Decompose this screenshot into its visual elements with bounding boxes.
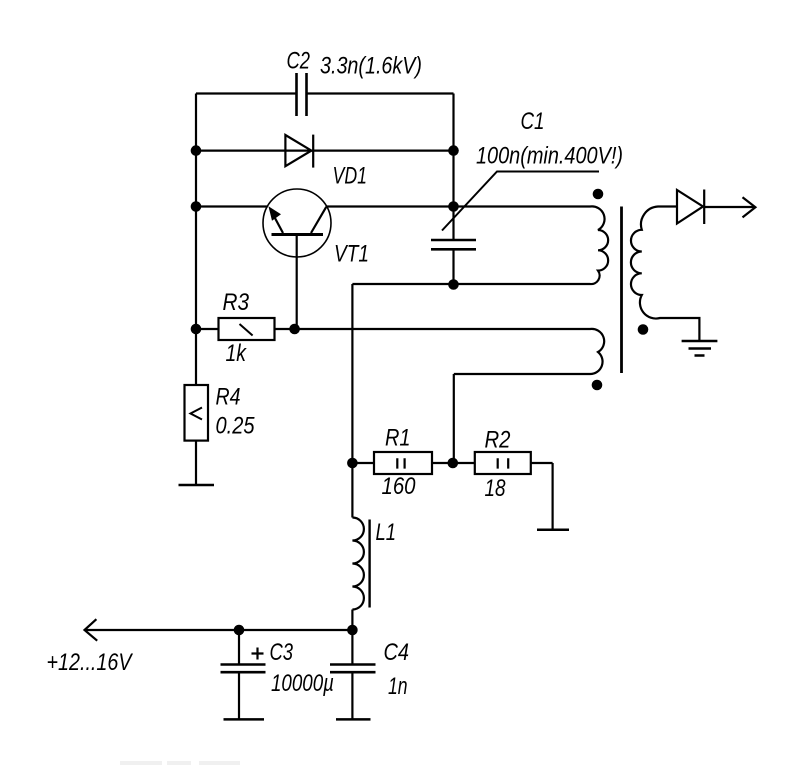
svg-text:C1: C1 bbox=[521, 108, 545, 135]
junction dots right rail bbox=[448, 145, 459, 290]
junction dots left rail bbox=[191, 145, 202, 334]
transformer secondary winding bbox=[631, 207, 700, 341]
wire VD1 row bbox=[196, 150, 454, 152]
svg-text:10000µ: 10000µ bbox=[271, 670, 334, 697]
svg-text:C4: C4 bbox=[384, 639, 410, 666]
svg-text:160: 160 bbox=[382, 473, 417, 500]
plus sign C3 bbox=[252, 648, 264, 660]
phasing dot winding 2 bbox=[592, 380, 603, 391]
svg-text:VD1: VD1 bbox=[333, 163, 368, 190]
inductor L1 bbox=[352, 518, 369, 610]
wire left rail bbox=[195, 94, 197, 386]
phasing dot winding 1 bbox=[593, 189, 604, 200]
wire R2 to ground bbox=[551, 463, 553, 530]
junction dots R1 row bbox=[347, 458, 458, 469]
wire R3 row to transformer primary winding 2 bbox=[295, 329, 605, 374]
transistor VT1 bbox=[263, 189, 331, 329]
svg-text:R1: R1 bbox=[385, 425, 411, 452]
wire L1 to supply row bbox=[351, 610, 353, 631]
wire winding2 to R1R2 junction bbox=[453, 374, 455, 463]
svg-text:100n(min.400V!): 100n(min.400V!) bbox=[476, 143, 623, 170]
wire right rail bbox=[452, 94, 454, 285]
wire output with arrow bbox=[705, 197, 756, 217]
svg-text:1k: 1k bbox=[226, 340, 248, 367]
svg-text:3.3n(1.6kV): 3.3n(1.6kV) bbox=[320, 53, 422, 80]
svg-text:R4: R4 bbox=[216, 384, 241, 411]
capacitor C2 bbox=[297, 73, 307, 116]
svg-text:C2: C2 bbox=[287, 48, 311, 75]
svg-text:R3: R3 bbox=[223, 289, 250, 316]
phasing dot secondary bbox=[638, 324, 649, 335]
wire top horizontal (C2 branch) bbox=[196, 92, 454, 94]
diode VD1 bbox=[285, 135, 313, 168]
ground R2 (bar) bbox=[537, 528, 569, 531]
ground C3 (bar) bbox=[224, 718, 265, 721]
ground R4 (bar) bbox=[179, 484, 215, 487]
wire collector row to transformer primary winding 1 bbox=[326, 206, 608, 284]
resistor R1 bbox=[352, 452, 452, 474]
resistor R4 bbox=[185, 385, 209, 441]
capacitor C4 bbox=[330, 630, 376, 719]
junction dots supply row bbox=[234, 625, 358, 636]
ground secondary (3 bars) bbox=[682, 341, 718, 356]
junction dot R3 output bbox=[289, 324, 300, 335]
svg-text:R2: R2 bbox=[485, 427, 511, 454]
transformer core bbox=[620, 207, 623, 374]
svg-text:0.25: 0.25 bbox=[216, 413, 256, 440]
svg-text:VT1: VT1 bbox=[334, 241, 369, 268]
wire emitter row left bbox=[196, 205, 268, 207]
diode output bbox=[677, 190, 704, 225]
wire R4 to ground bbox=[195, 441, 197, 485]
svg-text:18: 18 bbox=[485, 475, 507, 502]
resistor R3 bbox=[196, 318, 295, 340]
capacitor C3 bbox=[221, 630, 266, 719]
svg-text:1n: 1n bbox=[388, 673, 408, 700]
watermark fragment bottom bbox=[120, 761, 240, 765]
capacitor C1 bbox=[431, 240, 476, 249]
ground C4 (bar) bbox=[336, 718, 371, 721]
wire mid rail bbox=[351, 284, 353, 518]
leader line C1 bbox=[442, 172, 599, 231]
wire supply row bbox=[86, 629, 353, 631]
svg-text:+12...16V: +12...16V bbox=[47, 649, 134, 676]
svg-text:C3: C3 bbox=[270, 639, 294, 666]
arrow supply left bbox=[85, 619, 98, 641]
resistor R2 bbox=[453, 452, 553, 474]
svg-text:L1: L1 bbox=[376, 519, 397, 546]
